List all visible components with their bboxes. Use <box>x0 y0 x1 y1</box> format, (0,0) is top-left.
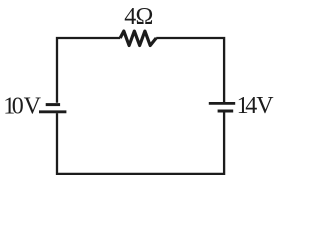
battery B1 (10V) short plate, top <box>46 103 60 106</box>
svg-text:10V: 10V <box>3 93 41 119</box>
resistor R1 4-ohm zigzag <box>120 31 156 45</box>
svg-text:14V: 14V <box>237 93 275 119</box>
battery B1 (10V) long plate, bottom <box>39 110 66 113</box>
wire: left upper segment + top-left segment <box>57 38 120 103</box>
wire: top-right segment + right upper segment <box>156 38 224 102</box>
battery B2 (14V) short plate, bottom <box>218 110 234 113</box>
wire: right lower + bottom + left lower segments <box>57 112 224 174</box>
svg-text:4Ω: 4Ω <box>124 4 153 30</box>
battery B2 (14V) long plate, top <box>209 102 235 105</box>
